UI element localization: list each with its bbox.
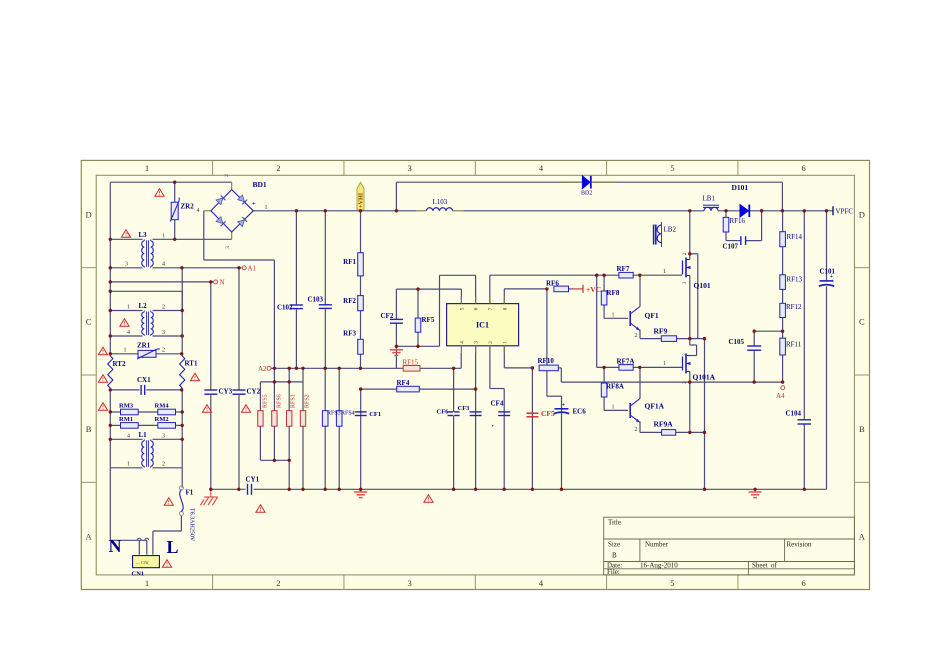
svg-text:7: 7 bbox=[488, 307, 494, 310]
svg-text:ZR2: ZR2 bbox=[181, 203, 195, 211]
svg-text:+: + bbox=[562, 403, 566, 409]
svg-text:T6.3AH250V: T6.3AH250V bbox=[189, 508, 195, 542]
svg-text:RF11: RF11 bbox=[786, 341, 802, 349]
svg-text:RT2: RT2 bbox=[113, 360, 126, 368]
svg-text:CY3: CY3 bbox=[219, 388, 233, 396]
svg-text:B: B bbox=[612, 552, 617, 560]
svg-text:C105: C105 bbox=[729, 338, 745, 346]
svg-text:A2: A2 bbox=[258, 365, 267, 373]
svg-text:16-Aug-2010: 16-Aug-2010 bbox=[640, 561, 678, 569]
svg-text:D: D bbox=[859, 209, 865, 219]
svg-text:4: 4 bbox=[127, 434, 130, 440]
svg-text:RM2: RM2 bbox=[155, 416, 169, 423]
svg-text:3: 3 bbox=[225, 246, 231, 249]
svg-text:4: 4 bbox=[162, 262, 165, 268]
svg-text:IC1: IC1 bbox=[476, 321, 489, 330]
svg-text:+VC: +VC bbox=[586, 285, 601, 294]
svg-text:RFS2: RFS2 bbox=[304, 394, 310, 408]
svg-text:6: 6 bbox=[474, 307, 480, 310]
svg-text:QF1: QF1 bbox=[645, 311, 659, 320]
svg-text:5: 5 bbox=[459, 307, 465, 310]
svg-text:3: 3 bbox=[125, 262, 128, 268]
svg-text:1: 1 bbox=[663, 269, 666, 275]
svg-text:RF2: RF2 bbox=[343, 297, 356, 305]
svg-text:L: L bbox=[167, 537, 179, 557]
svg-text:Size: Size bbox=[608, 541, 620, 549]
svg-text:1: 1 bbox=[663, 361, 666, 367]
svg-text:RF15: RF15 bbox=[403, 359, 419, 367]
svg-text:C104: C104 bbox=[786, 410, 802, 418]
svg-text:RFS3: RFS3 bbox=[327, 411, 341, 417]
svg-text:LB2: LB2 bbox=[664, 226, 677, 234]
svg-text:+VHI: +VHI bbox=[358, 192, 365, 208]
svg-text:L1: L1 bbox=[139, 431, 148, 439]
svg-text:A1: A1 bbox=[248, 265, 257, 273]
svg-text:BD1: BD1 bbox=[253, 180, 267, 189]
svg-text:B: B bbox=[86, 424, 92, 434]
svg-text:F1: F1 bbox=[186, 489, 194, 497]
svg-text:RF8A: RF8A bbox=[606, 383, 624, 391]
svg-text:Revision: Revision bbox=[787, 541, 812, 549]
svg-text:3: 3 bbox=[408, 163, 412, 173]
svg-text:L103: L103 bbox=[433, 198, 448, 206]
svg-text:VPFC: VPFC bbox=[836, 208, 854, 216]
svg-text:of: of bbox=[771, 561, 778, 569]
svg-text:CN1: CN1 bbox=[132, 571, 145, 578]
svg-text:RFS4: RFS4 bbox=[341, 411, 355, 417]
svg-text:2: 2 bbox=[162, 305, 165, 311]
svg-text:ZR1: ZR1 bbox=[137, 342, 151, 350]
svg-text:6: 6 bbox=[802, 163, 806, 173]
svg-text:3: 3 bbox=[474, 341, 480, 344]
svg-text:2: 2 bbox=[276, 163, 280, 173]
svg-text:1: 1 bbox=[124, 348, 127, 354]
svg-text:RF9A: RF9A bbox=[654, 420, 674, 429]
svg-text:A: A bbox=[859, 531, 866, 541]
svg-text:D101: D101 bbox=[732, 183, 749, 192]
svg-text:1: 1 bbox=[145, 163, 149, 173]
svg-text:D: D bbox=[86, 209, 92, 219]
svg-text:LB1: LB1 bbox=[703, 195, 716, 203]
svg-text:RM3: RM3 bbox=[119, 403, 134, 410]
svg-text:BD2: BD2 bbox=[581, 191, 592, 197]
svg-text:4: 4 bbox=[539, 578, 544, 588]
svg-text:CF3: CF3 bbox=[458, 405, 471, 412]
svg-text:8: 8 bbox=[502, 307, 508, 310]
svg-text:RF6: RF6 bbox=[546, 280, 559, 288]
svg-text:CF2: CF2 bbox=[381, 312, 394, 320]
svg-text:3: 3 bbox=[408, 578, 412, 588]
svg-text:CY1: CY1 bbox=[246, 476, 260, 484]
svg-text:RFS5: RFS5 bbox=[262, 394, 268, 408]
svg-text:RF14: RF14 bbox=[787, 233, 803, 241]
svg-text:— CN(: — CN( bbox=[135, 560, 150, 565]
svg-text:RM1: RM1 bbox=[119, 416, 133, 423]
svg-text:RF4: RF4 bbox=[397, 379, 410, 387]
svg-text:2: 2 bbox=[488, 341, 494, 344]
svg-text:C107: C107 bbox=[723, 243, 739, 251]
svg-text:Number: Number bbox=[645, 541, 669, 549]
svg-text:Title: Title bbox=[608, 519, 621, 527]
svg-text:2: 2 bbox=[635, 333, 638, 339]
svg-text:RF13: RF13 bbox=[787, 276, 803, 284]
svg-text:2: 2 bbox=[635, 427, 638, 433]
svg-text:3: 3 bbox=[162, 434, 165, 440]
svg-text:1: 1 bbox=[127, 305, 130, 311]
svg-text:B: B bbox=[859, 424, 865, 434]
svg-text:3: 3 bbox=[162, 330, 165, 336]
svg-text:C102: C102 bbox=[277, 304, 293, 312]
svg-text:RF8: RF8 bbox=[607, 289, 620, 297]
svg-text:File:: File: bbox=[607, 568, 620, 576]
svg-text:RF16: RF16 bbox=[730, 217, 746, 225]
svg-text:L3: L3 bbox=[139, 231, 148, 239]
svg-text:4: 4 bbox=[197, 208, 200, 214]
svg-text:2: 2 bbox=[162, 462, 165, 468]
svg-text:CF1: CF1 bbox=[369, 411, 381, 418]
svg-text:+: + bbox=[252, 201, 256, 208]
svg-text:RF10: RF10 bbox=[538, 357, 555, 365]
svg-text:RM4: RM4 bbox=[155, 403, 170, 410]
svg-text:CF5: CF5 bbox=[541, 409, 555, 418]
svg-text:4: 4 bbox=[539, 163, 544, 173]
svg-text:2: 2 bbox=[276, 578, 280, 588]
svg-text:1: 1 bbox=[145, 578, 149, 588]
svg-text:4: 4 bbox=[459, 341, 465, 344]
svg-text:RF5: RF5 bbox=[422, 316, 435, 324]
svg-text:2: 2 bbox=[162, 348, 165, 354]
svg-text:CX1: CX1 bbox=[137, 376, 151, 384]
svg-text:C: C bbox=[86, 317, 92, 327]
svg-text:N: N bbox=[220, 279, 225, 287]
svg-text:5: 5 bbox=[670, 578, 674, 588]
svg-text:RF3: RF3 bbox=[343, 330, 356, 338]
svg-text:C101: C101 bbox=[820, 268, 836, 276]
svg-text:RFS1: RFS1 bbox=[290, 394, 296, 408]
svg-text:1: 1 bbox=[265, 205, 268, 211]
svg-text:1: 1 bbox=[612, 404, 615, 410]
svg-text:RF9: RF9 bbox=[654, 327, 668, 336]
svg-text:C103: C103 bbox=[308, 296, 324, 304]
svg-text:RT1: RT1 bbox=[185, 360, 198, 368]
svg-text:EC6: EC6 bbox=[573, 408, 587, 416]
svg-text:A4: A4 bbox=[776, 392, 785, 400]
svg-text:L2: L2 bbox=[139, 302, 148, 310]
svg-text:1: 1 bbox=[162, 234, 165, 240]
svg-text:CF6: CF6 bbox=[437, 409, 450, 416]
svg-text:A: A bbox=[86, 531, 93, 541]
svg-text:RF7: RF7 bbox=[617, 265, 630, 273]
svg-text:1: 1 bbox=[612, 312, 615, 318]
svg-text:N: N bbox=[109, 536, 122, 556]
svg-text:6: 6 bbox=[802, 578, 806, 588]
svg-text:QF1A: QF1A bbox=[645, 402, 665, 411]
svg-text:Q101A: Q101A bbox=[693, 373, 716, 382]
svg-text:CY2: CY2 bbox=[247, 388, 261, 396]
svg-text:1: 1 bbox=[502, 341, 508, 344]
svg-text:1: 1 bbox=[127, 462, 130, 468]
svg-text:Q101: Q101 bbox=[694, 281, 711, 290]
svg-text:RF7A: RF7A bbox=[617, 358, 635, 366]
svg-text:4: 4 bbox=[127, 330, 130, 336]
svg-text:C: C bbox=[859, 317, 865, 327]
svg-text:RF1: RF1 bbox=[343, 258, 356, 266]
svg-text:Sheet: Sheet bbox=[752, 561, 768, 569]
svg-text:2: 2 bbox=[224, 174, 230, 177]
svg-text:5: 5 bbox=[670, 163, 674, 173]
svg-text:RF12: RF12 bbox=[786, 303, 802, 311]
svg-text:CF4: CF4 bbox=[491, 400, 504, 408]
svg-text:RFS6: RFS6 bbox=[276, 394, 282, 408]
